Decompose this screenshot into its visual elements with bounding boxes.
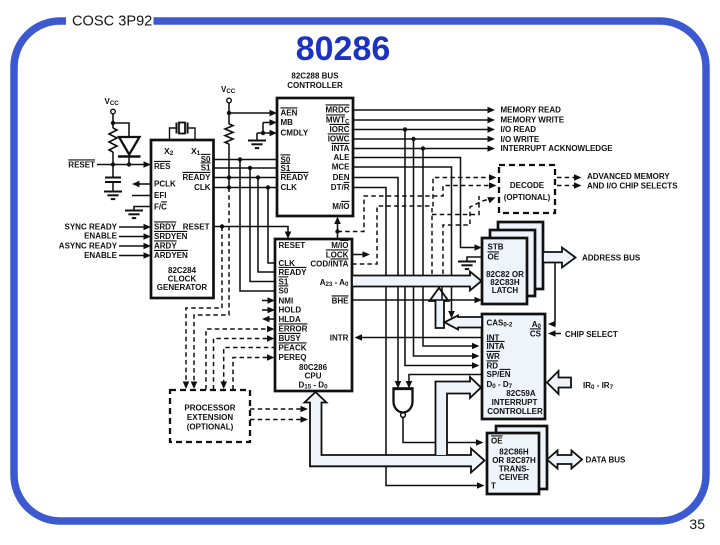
svg-text:COSC 3P92: COSC 3P92 <box>72 14 152 30</box>
svg-text:CLK: CLK <box>194 183 211 192</box>
svg-text:SYNC READY: SYNC READY <box>65 223 118 232</box>
svg-text:EFI: EFI <box>154 191 166 200</box>
svg-text:MEMORY READ: MEMORY READ <box>501 106 562 115</box>
svg-text:CONTROLLER: CONTROLLER <box>487 407 543 416</box>
svg-text:SRDYEN: SRDYEN <box>154 232 188 241</box>
svg-text:CONTROLLER: CONTROLLER <box>287 81 343 90</box>
svg-text:ADVANCED MEMORY: ADVANCED MEMORY <box>587 172 670 181</box>
svg-text:STB: STB <box>488 243 504 252</box>
svg-text:GENERATOR: GENERATOR <box>157 283 208 292</box>
svg-text:S1: S1 <box>281 164 291 173</box>
svg-text:80286: 80286 <box>296 30 391 68</box>
svg-text:ADDRESS BUS: ADDRESS BUS <box>582 254 641 263</box>
svg-text:READY: READY <box>183 173 212 182</box>
svg-text:NMI: NMI <box>279 297 294 306</box>
svg-text:RESET: RESET <box>68 161 95 170</box>
svg-text:ARDY: ARDY <box>154 242 177 251</box>
svg-text:RESET: RESET <box>279 241 306 250</box>
svg-text:MEMORY WRITE: MEMORY WRITE <box>501 116 565 125</box>
svg-text:INTA: INTA <box>331 144 349 153</box>
svg-text:ALE: ALE <box>334 153 351 162</box>
svg-text:IORC: IORC <box>330 125 350 134</box>
svg-text:IOWC: IOWC <box>328 135 350 144</box>
svg-text:IR0 - IR7: IR0 - IR7 <box>583 381 614 391</box>
svg-text:35: 35 <box>689 516 705 532</box>
svg-text:CLK: CLK <box>279 259 296 268</box>
svg-text:SP/EN: SP/EN <box>487 370 511 379</box>
svg-text:AEN: AEN <box>281 109 298 118</box>
svg-text:COD/INTA: COD/INTA <box>310 260 348 269</box>
svg-text:LATCH: LATCH <box>492 286 519 295</box>
svg-text:ARDYEN: ARDYEN <box>154 251 188 260</box>
svg-text:DATA BUS: DATA BUS <box>586 456 627 465</box>
svg-text:SRDY: SRDY <box>154 223 177 232</box>
svg-text:ASYNC READY: ASYNC READY <box>59 242 118 251</box>
svg-text:CPU: CPU <box>305 372 322 381</box>
svg-text:M/IO: M/IO <box>331 241 348 250</box>
svg-text:I/O READ: I/O READ <box>501 125 537 134</box>
svg-text:HLDA: HLDA <box>279 315 301 324</box>
svg-text:I/O WRITE: I/O WRITE <box>501 135 540 144</box>
svg-text:WR: WR <box>487 352 501 361</box>
svg-text:INTR: INTR <box>330 334 349 343</box>
svg-text:OE: OE <box>488 253 500 262</box>
svg-text:M/IO: M/IO <box>332 202 349 211</box>
svg-text:(OPTIONAL): (OPTIONAL) <box>187 423 234 432</box>
svg-text:DEN: DEN <box>333 173 350 182</box>
svg-text:CMDLY: CMDLY <box>281 129 309 138</box>
svg-text:PROCESSOR: PROCESSOR <box>184 404 235 413</box>
svg-text:INTERRUPT: INTERRUPT <box>492 398 538 407</box>
svg-text:MCE: MCE <box>332 163 350 172</box>
svg-text:READY: READY <box>279 268 308 277</box>
svg-text:82C288 BUS: 82C288 BUS <box>291 72 339 81</box>
svg-text:BUSY: BUSY <box>279 334 302 343</box>
svg-text:S0: S0 <box>279 287 289 296</box>
svg-text:DT/R: DT/R <box>331 183 350 192</box>
svg-text:OE: OE <box>491 437 503 446</box>
svg-text:READY: READY <box>281 173 310 182</box>
svg-text:(OPTIONAL): (OPTIONAL) <box>504 193 551 202</box>
svg-text:CLK: CLK <box>281 183 298 192</box>
svg-text:PEACK: PEACK <box>279 344 307 353</box>
svg-text:ENABLE: ENABLE <box>84 251 118 260</box>
svg-text:EXTENSION: EXTENSION <box>187 413 233 422</box>
svg-text:DECODE: DECODE <box>510 181 545 190</box>
svg-text:T: T <box>491 482 496 491</box>
svg-text:ENABLE: ENABLE <box>84 232 118 241</box>
svg-text:F/C: F/C <box>154 203 167 212</box>
svg-text:ERROR: ERROR <box>279 325 308 334</box>
svg-text:INTA: INTA <box>487 342 505 351</box>
svg-text:LOCK: LOCK <box>326 251 349 260</box>
svg-text:INTERRUPT ACKNOWLEDGE: INTERRUPT ACKNOWLEDGE <box>501 144 614 153</box>
svg-text:PEREQ: PEREQ <box>279 353 307 362</box>
svg-text:S1: S1 <box>201 164 211 173</box>
svg-text:CHIP SELECT: CHIP SELECT <box>565 330 618 339</box>
svg-text:RESET: RESET <box>183 223 210 232</box>
svg-text:82C59A: 82C59A <box>506 389 536 398</box>
svg-text:S1: S1 <box>279 278 289 287</box>
svg-text:A23 - A0: A23 - A0 <box>320 278 349 288</box>
svg-text:HOLD: HOLD <box>279 306 302 315</box>
svg-text:MB: MB <box>281 118 294 127</box>
svg-text:CS: CS <box>530 330 542 339</box>
svg-text:D15 - D0: D15 - D0 <box>299 381 329 391</box>
svg-text:BHE: BHE <box>332 297 350 306</box>
svg-text:AND I/O CHIP SELECTS: AND I/O CHIP SELECTS <box>587 182 678 191</box>
svg-text:MRDC: MRDC <box>326 106 350 115</box>
svg-text:CEIVER: CEIVER <box>499 473 529 482</box>
svg-text:RES: RES <box>154 162 171 171</box>
svg-text:PCLK: PCLK <box>154 180 176 189</box>
